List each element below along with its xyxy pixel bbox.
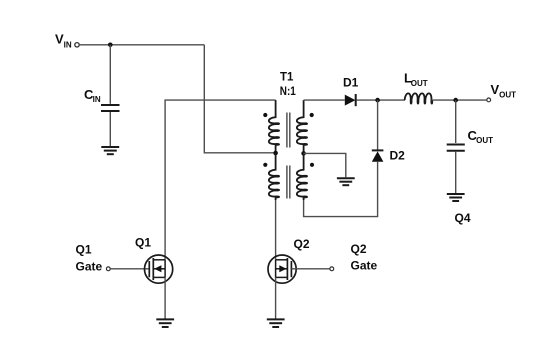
inductor LOUT xyxy=(405,93,433,103)
transistor Q2 xyxy=(268,255,296,283)
T1 core xyxy=(287,113,290,199)
svg-text:Gate: Gate xyxy=(76,260,103,274)
wire VIN to primary center tap xyxy=(204,45,275,153)
wire Q1 source xyxy=(164,277,166,318)
wire D2 branch xyxy=(377,100,379,150)
T1 primary lower winding xyxy=(269,153,279,200)
svg-text:IN: IN xyxy=(93,95,101,104)
wire Q1 gate xyxy=(110,268,149,270)
T1 phase dot secondary lower xyxy=(310,163,314,167)
ground Q2 xyxy=(267,319,285,327)
label CIN xyxy=(84,87,101,104)
svg-text:OUT: OUT xyxy=(499,91,516,100)
wire LOUT to VOUT xyxy=(431,99,486,101)
node rectifier output xyxy=(375,98,380,103)
svg-text:OUT: OUT xyxy=(411,79,428,88)
wire Q2 gate xyxy=(291,268,329,270)
terminal VIN xyxy=(75,43,79,47)
wire VIN rail xyxy=(79,44,204,46)
wire COUT upper xyxy=(455,100,457,143)
wire COUT lower xyxy=(455,152,457,194)
wire secondary top to D1 xyxy=(304,99,345,101)
transistor Q1 xyxy=(145,255,173,283)
svg-text:T1: T1 xyxy=(280,70,294,84)
node COUT tap xyxy=(453,98,458,103)
label LOUT xyxy=(404,71,428,88)
wire Q2 drain xyxy=(275,200,277,260)
node secondary center tap xyxy=(301,151,306,156)
svg-text:Gate: Gate xyxy=(351,259,378,273)
diode D1 xyxy=(345,94,356,106)
capacitor COUT xyxy=(447,145,465,151)
wire D1 to LOUT xyxy=(357,99,406,101)
wire Q1 drain to primary top xyxy=(165,100,276,260)
T1 secondary lower winding xyxy=(297,153,307,200)
svg-text:Q4: Q4 xyxy=(455,211,471,225)
label VOUT xyxy=(491,82,517,100)
node CIN tap xyxy=(108,43,113,48)
T1 phase dot secondary upper xyxy=(310,113,314,117)
T1 phase dot primary upper xyxy=(263,113,267,117)
svg-text:Q1: Q1 xyxy=(135,236,151,250)
svg-text:OUT: OUT xyxy=(476,136,493,145)
capacitor CIN xyxy=(101,105,120,111)
terminal VOUT xyxy=(487,98,491,102)
svg-text:Q2: Q2 xyxy=(294,237,310,251)
svg-text:D2: D2 xyxy=(390,149,406,163)
ground CIN xyxy=(101,147,119,154)
ground Q1 xyxy=(156,319,174,327)
wire CIN upper xyxy=(109,45,111,104)
terminal Q2 gate xyxy=(330,267,334,271)
svg-text:Q2: Q2 xyxy=(351,242,367,256)
ground COUT xyxy=(447,194,465,201)
terminal Q1 gate xyxy=(106,267,110,271)
svg-text:D1: D1 xyxy=(343,76,359,90)
svg-text:N:1: N:1 xyxy=(280,84,296,98)
T1 phase dot primary lower xyxy=(263,163,267,167)
T1 primary upper winding xyxy=(269,100,279,153)
svg-text:Q1: Q1 xyxy=(76,242,92,256)
T1 secondary upper winding xyxy=(297,100,307,153)
ground secondary center tap xyxy=(337,178,355,185)
wire secondary center tap to ground xyxy=(304,153,346,177)
wire CIN lower xyxy=(109,112,111,146)
label COUT xyxy=(468,128,494,145)
wire D2 anode to secondary bottom xyxy=(304,162,378,217)
wire Q2 source xyxy=(275,277,277,318)
label VIN xyxy=(55,31,72,49)
diode D2 xyxy=(372,150,384,161)
node primary center tap xyxy=(273,151,278,156)
svg-text:IN: IN xyxy=(64,40,72,49)
